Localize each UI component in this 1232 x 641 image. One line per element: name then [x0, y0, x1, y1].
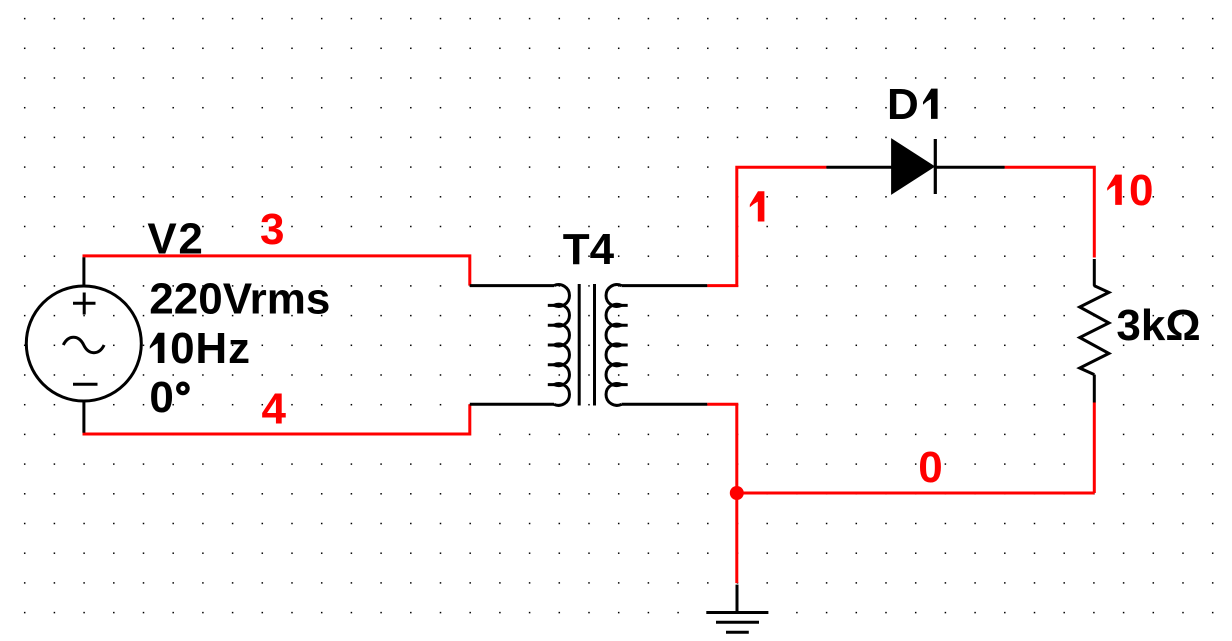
plus sign: [73, 293, 96, 315]
svg-text:D: D: [887, 80, 919, 129]
ground bar 1: [706, 611, 768, 614]
svg-text:220Vrms: 220Vrms: [149, 275, 330, 324]
ground bar 2: [716, 621, 759, 624]
wire: source bottom pin: [82, 401, 85, 433]
source circle: [26, 286, 141, 401]
wire: secondary top lead: [622, 284, 708, 287]
primary winding coil: [554, 285, 569, 406]
net label 1: [750, 191, 765, 221]
diode D1: [826, 139, 1004, 194]
wire net4 bottom: source to transformer primary bottom: [83, 404, 470, 434]
svg-text:0: 0: [1129, 166, 1153, 215]
label 10Hz: [150, 333, 165, 363]
wire net1: transformer secondary top to diode anode: [707, 167, 826, 285]
ground: [706, 585, 768, 633]
svg-text:3: 3: [260, 205, 284, 254]
svg-text:0: 0: [918, 443, 942, 492]
AC source V2: [26, 257, 141, 432]
wire: resistor bottom lead: [1093, 375, 1096, 403]
wire: anode lead: [826, 166, 891, 169]
resistor R1 3kOhm: [1080, 259, 1109, 403]
wire net0: transformer secondary bottom down to junction: [707, 404, 737, 493]
wire: primary bottom lead: [470, 403, 554, 406]
cathode bar: [934, 139, 937, 194]
transformer T4: [470, 284, 707, 406]
wire: ground stem: [736, 585, 739, 613]
svg-text:V2: V2: [147, 215, 204, 264]
wire net0 horizontal: [737, 492, 1095, 495]
svg-text:0: 0: [149, 373, 173, 422]
wire: secondary bottom lead: [622, 403, 708, 406]
wire: primary top lead: [470, 284, 554, 287]
wire: cathode lead: [935, 166, 1004, 169]
core line right: [593, 284, 596, 406]
core line left: [578, 284, 581, 406]
wire net0: junction to ground stem: [735, 493, 738, 583]
sine wave: [63, 337, 104, 352]
wire: resistor top lead: [1093, 259, 1096, 286]
svg-text:0Hz: 0Hz: [170, 324, 251, 373]
secondary winding coil: [606, 285, 621, 406]
ground bar 3: [726, 631, 749, 634]
wire net10: diode cathode to resistor top: [1005, 167, 1095, 257]
wire net10 resistor bottom to node0 corner: [1093, 403, 1096, 494]
secondary coil cusp stubs: [621, 305, 628, 384]
svg-text:4: 4: [262, 384, 287, 433]
net label 10: [1107, 175, 1122, 205]
svg-text:3kΩ: 3kΩ: [1116, 301, 1200, 350]
degree ring of 0 deg: [178, 384, 187, 393]
svg-text:T4: T4: [563, 225, 615, 274]
wire net3 top: source to transformer primary top: [83, 256, 470, 286]
minus sign: [73, 383, 98, 386]
wire: source top pin: [82, 257, 85, 286]
junction node 0 dot: [730, 486, 744, 500]
primary coil cusp stubs: [548, 305, 555, 384]
diode triangle: [892, 139, 935, 194]
resistor zigzag: [1080, 286, 1109, 375]
